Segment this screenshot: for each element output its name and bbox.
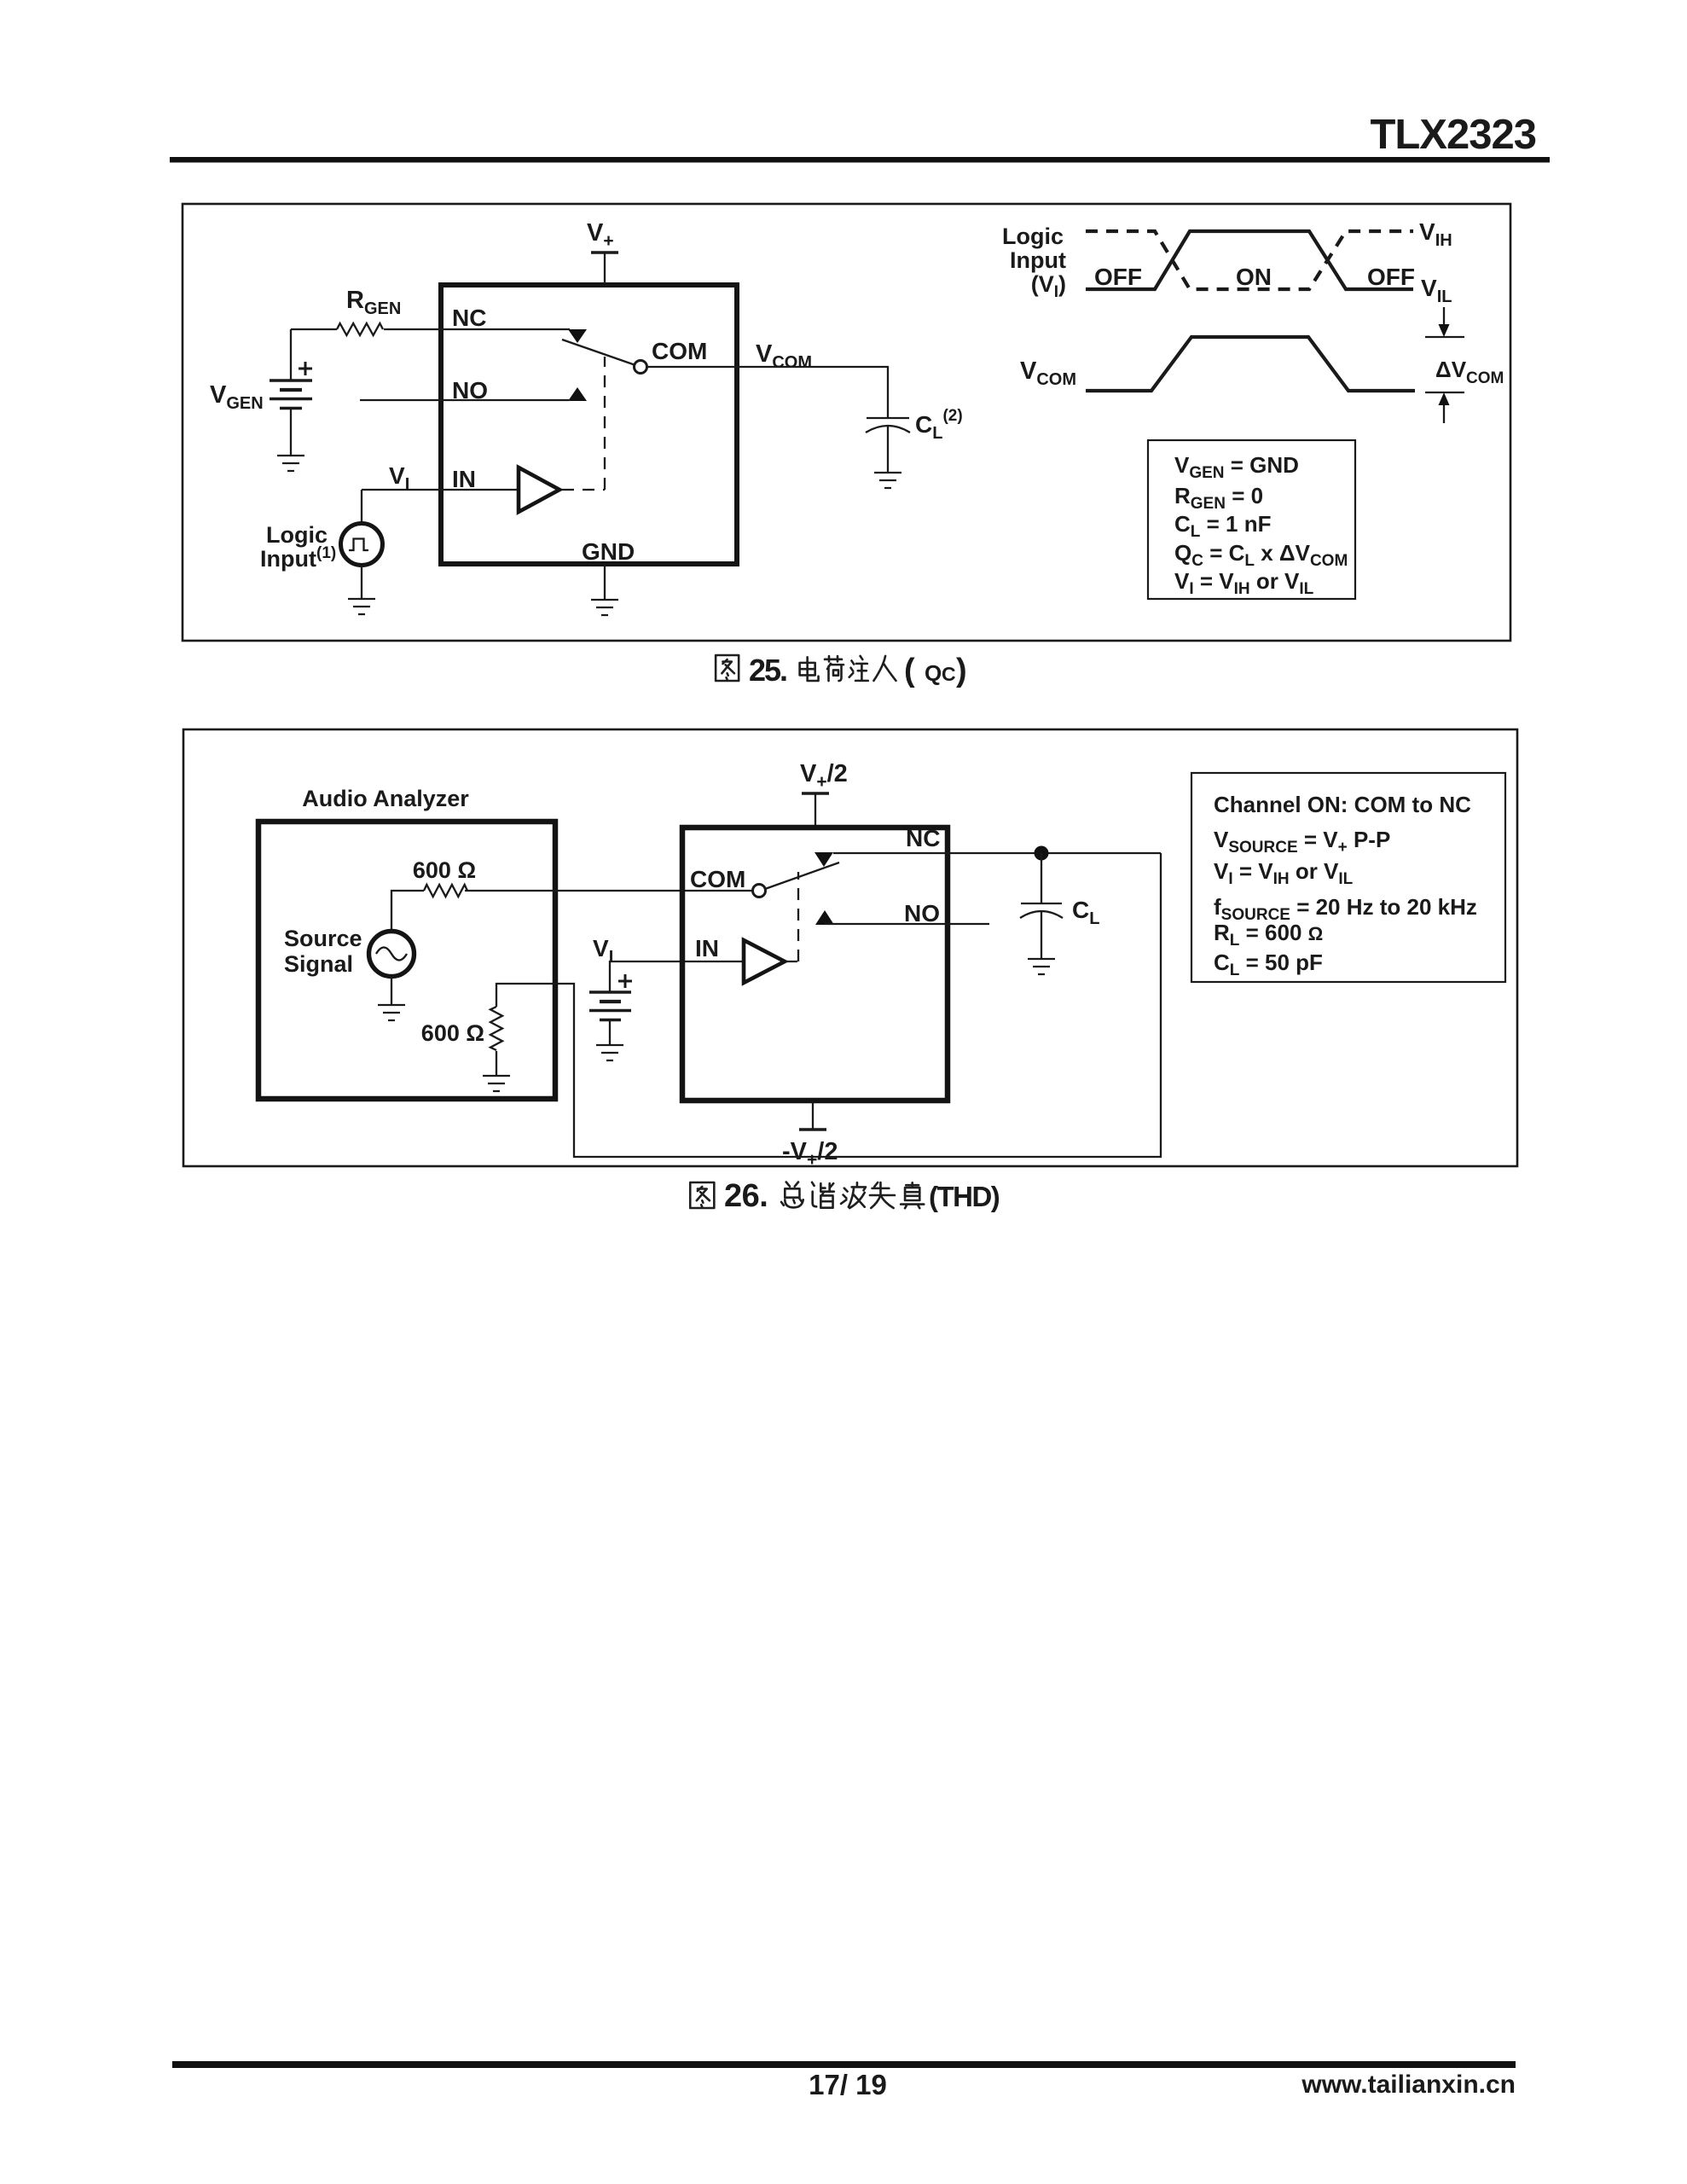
svg-text:Source: Source [284, 926, 362, 951]
capacitor CL fig26 [1021, 903, 1062, 904]
svg-text:ON: ON [1236, 264, 1272, 290]
wire NO stub fig26 [825, 923, 989, 925]
svg-text:(1): (1) [316, 544, 336, 562]
wire CL to ground [887, 427, 889, 473]
wire NO stub [360, 399, 569, 401]
ground CL fig26 [1028, 959, 1055, 974]
wire COM net [465, 890, 753, 892]
svg-text:IN: IN [452, 466, 476, 492]
resistor RGEN [337, 323, 383, 335]
ground battery [596, 1045, 623, 1060]
wire node to CL [1041, 853, 1042, 903]
wire IN net [362, 489, 519, 491]
svg-text:Q: Q [925, 660, 942, 686]
svg-text:www.tailianxin.cn: www.tailianxin.cn [1301, 2071, 1516, 2099]
caption glyph zhen [901, 1182, 924, 1208]
IC U1 box [441, 285, 737, 564]
switch lever [562, 340, 635, 365]
junction node CL [1035, 846, 1049, 861]
wire NC net fig26 [833, 852, 1161, 854]
svg-text:OFF: OFF [1094, 264, 1142, 290]
switch contact NO [568, 387, 587, 401]
buffer driver [519, 468, 559, 512]
wire V+/2 to IC [815, 794, 816, 825]
figure 26 frame [183, 729, 1517, 1166]
ground GND pin [591, 600, 618, 615]
logic input source G1 [341, 524, 383, 566]
caption glyph xie [812, 1182, 834, 1208]
wire CL to ground fig26 [1041, 912, 1042, 959]
svg-text:): ) [956, 653, 967, 688]
annotation box fig25 [1148, 440, 1355, 599]
wire VI battery to ground [609, 1020, 611, 1045]
audio analyzer box [258, 822, 555, 1099]
resistor 600 ohm load [490, 1007, 502, 1050]
wire logic source to ground [361, 566, 362, 599]
resistor 600 ohm series [424, 885, 467, 897]
waveform VCOM [1086, 337, 1415, 391]
capacitor CL [867, 417, 909, 419]
svg-text:Input: Input [1010, 247, 1066, 273]
waveform logic input dashed [1086, 231, 1413, 289]
svg-text:Logic: Logic [1002, 224, 1064, 249]
header rule [170, 157, 1550, 163]
ground logic input [348, 599, 375, 614]
dashed control line [562, 357, 605, 490]
dashed control line fig26 [786, 872, 798, 961]
wire load resistor loop [496, 853, 1161, 1157]
wire -V+/2 pin [812, 1101, 814, 1130]
caption glyph zhu [849, 656, 868, 681]
waveform logic input solid [1086, 231, 1413, 289]
arrow down [1443, 307, 1445, 326]
caption glyph he [825, 656, 843, 681]
buffer driver fig26 [744, 940, 785, 983]
svg-text:(: ( [904, 653, 915, 688]
-V+/2 supply terminal [799, 1128, 826, 1131]
wire NC net [291, 328, 570, 330]
ground CL [874, 473, 901, 488]
IC U2 box [682, 828, 948, 1101]
svg-text:600 Ω: 600 Ω [413, 857, 476, 883]
svg-text:NO: NO [904, 900, 940, 926]
wire logic source top [361, 490, 362, 524]
svg-text:26.: 26. [724, 1178, 768, 1214]
footer rule [172, 2061, 1516, 2068]
ground VGEN [277, 456, 304, 471]
svg-text:COM: COM [690, 866, 745, 892]
svg-text:Input: Input [260, 546, 316, 572]
svg-text:(THD): (THD) [929, 1181, 1000, 1212]
caption glyph dian [800, 657, 819, 681]
caption glyph bo [841, 1182, 866, 1208]
caption glyph tu 2 [690, 1182, 714, 1208]
V+/2 supply terminal [802, 792, 829, 795]
svg-text:NO: NO [452, 377, 488, 404]
wire VI battery to IN [610, 961, 744, 992]
switch contact NO fig26 [815, 910, 834, 925]
switch contact NC [568, 329, 587, 343]
wire source to ground [391, 977, 392, 1005]
switch pivot COM [635, 361, 647, 374]
battery VGEN [270, 362, 312, 409]
dimension ticks dVCOM [1425, 337, 1464, 392]
wire VCOM net [646, 367, 888, 418]
wire VGEN to ground [290, 409, 292, 456]
switch contact NC fig26 [815, 852, 833, 867]
wire source to resistor [391, 891, 424, 931]
caption glyph tu [716, 655, 739, 681]
ground source [378, 1005, 405, 1020]
arrow up [1443, 404, 1445, 423]
svg-text:NC: NC [452, 305, 486, 331]
battery VI [589, 974, 632, 1020]
source signal generator G2 [369, 932, 415, 977]
switch pivot COM fig26 [753, 885, 766, 897]
V+ supply terminal [591, 251, 618, 254]
svg-text:25.: 25. [749, 653, 786, 688]
svg-text:CL = 1 nF: CL = 1 nF [1174, 511, 1271, 541]
annotation box fig26 [1191, 773, 1505, 982]
svg-text:OFF: OFF [1367, 264, 1415, 290]
svg-text:Audio Analyzer: Audio Analyzer [302, 786, 469, 811]
svg-text:Channel ON: COM to NC: Channel ON: COM to NC [1214, 792, 1471, 817]
svg-text:17/ 19: 17/ 19 [809, 2069, 887, 2100]
switch lever fig26 [765, 863, 839, 889]
svg-text:TLX2323: TLX2323 [1370, 112, 1536, 158]
wire V+ to IC [604, 253, 606, 283]
wire load resistor to ground [496, 1051, 497, 1076]
svg-text:GND: GND [582, 538, 635, 565]
svg-text:(VI): (VI) [1031, 271, 1066, 301]
caption glyph ru [873, 656, 896, 681]
wire VGEN top [290, 329, 292, 381]
svg-text:NC: NC [906, 825, 940, 851]
svg-text:COM: COM [652, 338, 707, 364]
ground load resistor [483, 1076, 510, 1091]
figure 25 frame [183, 204, 1510, 641]
svg-text:Signal: Signal [284, 951, 353, 977]
svg-text:C: C [942, 663, 956, 685]
caption glyph shi [870, 1182, 895, 1208]
svg-text:IN: IN [695, 935, 719, 961]
wire GND pin [604, 564, 606, 600]
caption glyph zong [781, 1182, 803, 1208]
svg-text:600 Ω: 600 Ω [421, 1020, 484, 1046]
